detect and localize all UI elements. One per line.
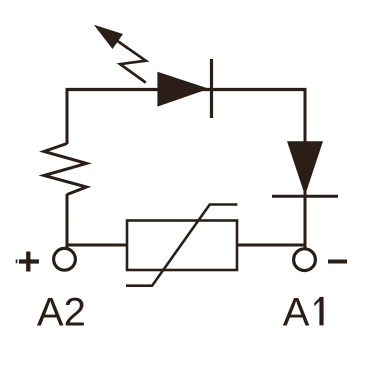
wire: left vertical from top corner down to resistor <box>66 88 69 144</box>
varistor RV1 body (rectangle) <box>127 221 237 271</box>
LED D2 triangle (pointing right) <box>157 72 209 107</box>
wire: bottom-right horizontal from varistor to terminal A1 <box>236 244 307 247</box>
terminal A1 circle <box>294 249 316 271</box>
wire: right vertical from top corner down to terminal A1 <box>304 88 307 250</box>
minus polarity sign at A1 <box>328 260 347 264</box>
varistor RV1 diagonal stroke <box>126 205 237 286</box>
resistor R1 (zigzag) <box>44 144 87 195</box>
LED D2 cathode bar <box>210 59 213 118</box>
plus polarity sign at A2 <box>19 252 39 272</box>
terminal A2 circle <box>54 248 76 270</box>
LED emission zigzag arrow shaft <box>118 41 146 83</box>
svg-text:A: A <box>283 290 310 334</box>
wire: bottom-left horizontal to varistor <box>66 244 129 247</box>
wire: top horizontal from left corner to right corner <box>66 88 307 91</box>
svg-text:A2: A2 <box>37 290 86 334</box>
diode D1 triangle (pointing down) <box>287 141 323 195</box>
small tick mark left of plus sign <box>16 259 18 263</box>
diode D1 cathode bar <box>272 195 338 198</box>
wire: left vertical from resistor down to terminal A2 <box>66 194 69 250</box>
LED emission arrowhead <box>94 25 123 49</box>
